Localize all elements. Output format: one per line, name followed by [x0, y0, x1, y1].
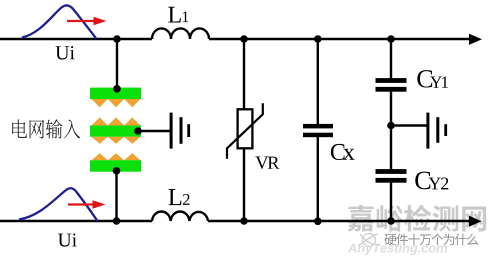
wire top rail right segment — [209, 38, 470, 40]
watermark text 硬件十万个为什么 — [384, 234, 478, 246]
arrester middle electrode teeth lower — [92, 137, 141, 144]
varistor VR body — [238, 109, 253, 148]
wire top rail to VR — [243, 39, 245, 110]
capacitor Cx plates — [303, 124, 333, 137]
capacitor CY1 plates — [376, 78, 407, 92]
watermark logo swirl — [358, 234, 380, 247]
node bottom rail / Cx — [314, 218, 322, 226]
label Ui top — [56, 46, 75, 59]
label Ui bottom — [58, 233, 77, 246]
wire top rail to arrester — [116, 39, 118, 89]
arrow top pulse direction (red) — [67, 17, 107, 25]
arrow bottom pulse direction (red) — [68, 200, 106, 208]
inductor L2 — [152, 211, 208, 221]
arrester bottom electrode teeth — [92, 153, 141, 160]
node top rail / arrester — [113, 35, 121, 43]
wire Cx to bottom rail — [317, 137, 319, 221]
node arrester bottom electrode — [113, 167, 121, 175]
wire bottom rail right segment — [208, 220, 470, 222]
node arrester top electrode — [113, 85, 121, 93]
arrester top electrode teeth — [92, 99, 141, 107]
label L2 — [169, 189, 190, 205]
watermark text 嘉峪检测网 — [348, 205, 487, 232]
node bottom rail / VR — [240, 217, 248, 225]
arrester middle electrode bar — [90, 126, 141, 137]
varistor VR diagonal stroke — [227, 103, 263, 159]
label VR — [255, 156, 279, 168]
label 电网输入 (mains input) — [12, 119, 80, 138]
input surge pulse bottom (blue) — [19, 188, 98, 221]
node bottom rail / arrester — [113, 217, 121, 225]
label Cx — [331, 144, 355, 160]
wire VR to bottom rail — [243, 148, 245, 221]
wire bottom rail left segment — [0, 220, 152, 222]
node top rail / Cx — [314, 35, 322, 43]
node bottom rail / CY2 — [387, 217, 395, 225]
capacitor CY2 plates — [376, 169, 407, 183]
arrowhead bottom rail output — [469, 216, 482, 227]
wire CY2 to bottom rail — [390, 182, 392, 221]
wire arrester middle electrode to ground — [138, 130, 170, 132]
label L1 — [168, 7, 188, 23]
wire top rail left segment — [0, 38, 152, 40]
wire arrester to bottom rail — [115, 171, 117, 221]
arrester bottom electrode bar — [90, 160, 141, 172]
ground left (arrester) — [170, 113, 191, 149]
watermark text AnyTesting.com — [348, 243, 447, 255]
label CY2 — [415, 172, 448, 190]
arrester top electrode bar — [90, 88, 141, 99]
wire top rail to Cx — [317, 39, 319, 124]
inductor L1 — [152, 28, 209, 39]
node top rail / CY1 — [387, 35, 395, 43]
node arrester middle electrode — [134, 127, 142, 135]
wire top rail to CY1 — [390, 39, 392, 78]
wires: supply rails and branch connections — [0, 28, 470, 221]
arrester middle electrode teeth upper — [92, 117, 141, 125]
node top rail / VR — [240, 35, 248, 43]
wire CY midpoint to ground — [391, 124, 427, 126]
label CY1 — [417, 70, 448, 88]
arrowhead top rail output — [469, 34, 482, 45]
node CY midpoint — [387, 122, 395, 130]
ground right (CY midpoint) — [426, 113, 447, 149]
wire CY1 to CY2 — [390, 92, 392, 170]
input surge pulse top (blue) — [22, 5, 97, 39]
